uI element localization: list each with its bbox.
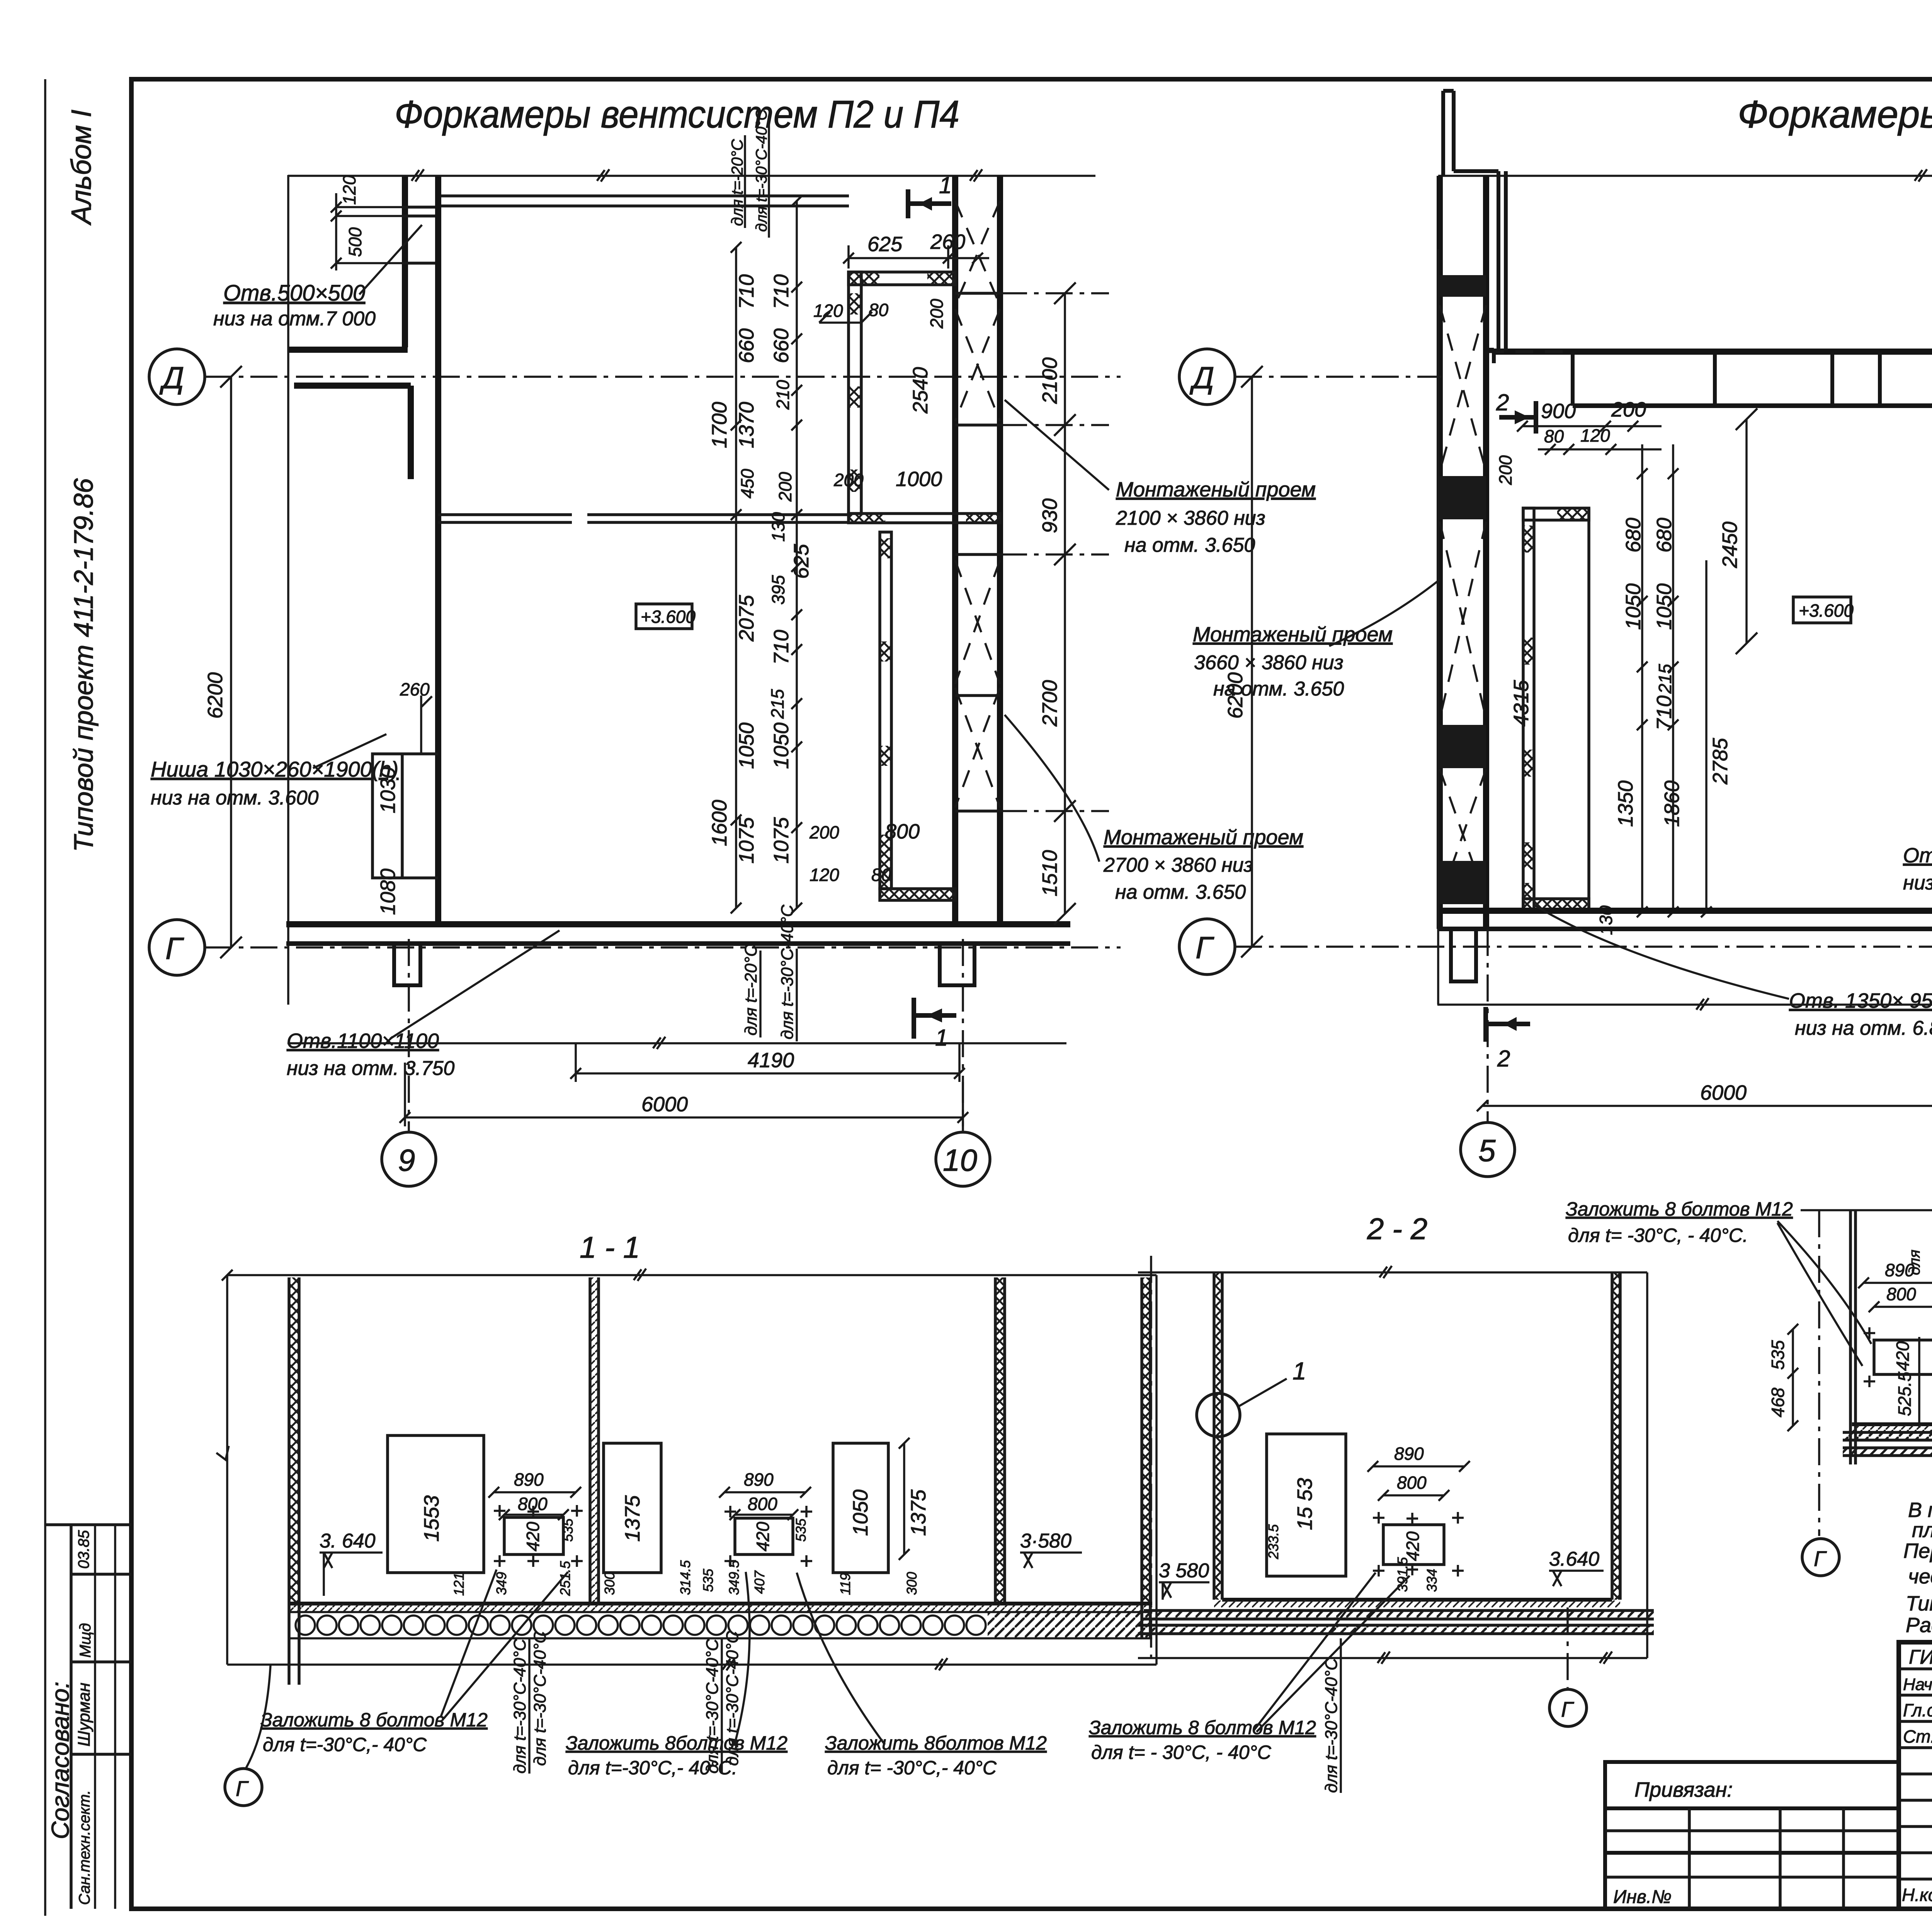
svg-text:535: 535 [793,1518,809,1542]
bottom wall double [286,921,1070,927]
dim 6000 left bay [1477,1100,1932,1111]
title block outer border [1899,1642,1932,1909]
dims 535/468 [1787,1324,1798,1431]
leader otv500 [359,225,422,294]
svg-text:Привязан:: Привязан: [1634,1778,1733,1801]
svg-text:1050: 1050 [1653,583,1676,630]
svg-text:680: 680 [1653,518,1676,553]
dim chain B line [796,201,798,908]
mid partition wall [438,515,849,522]
svg-text:890: 890 [744,1469,774,1490]
svg-text:для t=-20°C: для t=-20°C [728,139,746,226]
svg-text:1700: 1700 [708,402,731,448]
svg-text:для: для [1906,1250,1923,1275]
top extension line [227,1269,1156,1281]
right wall grid10 inner line [997,176,1003,927]
svg-text:03.85: 03.85 [75,1530,92,1569]
right dim chain 2100/930/2700/1510 [1054,282,1076,925]
svg-text:Г: Г [1196,930,1214,965]
svg-text:300: 300 [602,1572,617,1595]
dim 890 [1858,1277,1932,1288]
partition B hatched [995,1277,1005,1604]
top extension line [1801,1204,1932,1216]
svg-text:низ на отм. 3.750: низ на отм. 3.750 [287,1057,455,1080]
svg-text:В полу форкамер предусмо: В полу форкамер предусмотреть жесткие ми… [1908,1498,1932,1522]
svg-text:260: 260 [400,679,430,699]
bottom extension line [1138,1651,1647,1664]
svg-text:10: 10 [943,1143,977,1177]
left wall black piers [1440,275,1486,297]
svg-text:121: 121 [451,1573,467,1596]
floor lines [1222,1598,1612,1602]
grid line 9 [408,939,410,1131]
grid line 10 [962,939,964,1131]
svg-text:2700: 2700 [1038,680,1061,727]
G circle section 1-1 [225,1769,262,1806]
svg-text:1050: 1050 [849,1490,872,1536]
grid circle 10 [936,1132,990,1186]
svg-text:1510: 1510 [1038,850,1061,896]
svg-text:215: 215 [767,689,787,719]
dim 800 [1378,1490,1449,1501]
elevation box +3.600 [636,604,692,629]
svg-text:на отм. 3.650: на отм. 3.650 [1115,881,1246,903]
left dashdot [1818,1210,1820,1536]
equipment 1553 [1267,1434,1346,1576]
bottom extension line [287,1037,1066,1049]
right extension vertical [1155,1275,1158,1665]
svg-text:1000: 1000 [896,468,942,491]
svg-text:5: 5 [1478,1133,1496,1168]
svg-text:1080: 1080 [376,869,400,915]
svg-text:710: 710 [735,274,758,309]
svg-text:для t=-30°C-40°C: для t=-30°C-40°C [1322,1658,1341,1793]
svg-text:Заложить 8 болтов М12: Заложить 8 болтов М12 [1089,1717,1316,1738]
svg-text:Отв. 1350× 950 (h): Отв. 1350× 950 (h) [1789,989,1932,1012]
equipment 1050 [833,1443,888,1573]
right extension vertical [1646,1272,1648,1658]
svg-text:1375: 1375 [621,1495,644,1542]
svg-text:+3.600: +3.600 [641,607,696,627]
svg-text:1600: 1600 [708,800,731,846]
right wall grid10 outer line [952,176,958,927]
svg-text:Монтажeный проем: Монтажeный проем [1193,623,1393,646]
left wall cap [289,347,408,353]
svg-text:210: 210 [773,380,793,410]
svg-text:ГИП: ГИП [1909,1646,1932,1668]
svg-text:1 - 1: 1 - 1 [580,1230,640,1264]
slab right diagonal part [988,1612,1152,1638]
svg-text:для t=-20°C: для t=-20°C [742,944,760,1036]
svg-text:9: 9 [398,1143,415,1177]
right wall [1142,1277,1150,1604]
svg-text:120: 120 [1580,425,1610,446]
svg-text:Отв.500×500: Отв.500×500 [223,281,365,306]
dim 4190 [570,1043,965,1082]
svg-text:200: 200 [1495,455,1515,485]
svg-text:1050: 1050 [735,723,758,769]
svg-text:391.5: 391.5 [1395,1557,1410,1592]
dim 6200 right plan [1241,366,1263,957]
svg-text:Шурман: Шурман [75,1683,94,1747]
svg-text:420: 420 [1893,1341,1913,1371]
wall step at left [1485,350,1494,363]
svg-text:Ст.инж: Ст.инж [1903,1726,1932,1747]
top extension line [1138,1266,1647,1278]
leaders [1254,1573,1410,1732]
bottom extension line [227,1658,1156,1670]
svg-text:Отв.1100×1100: Отв.1100×1100 [287,1029,439,1053]
svg-text:200: 200 [833,470,864,490]
svg-text:120: 120 [810,865,839,885]
svg-text:для t=-30°C,- 40°C: для t=-30°C,- 40°C [263,1734,427,1755]
left dashdot vertical [1150,1256,1152,1658]
mid partition [590,1277,599,1604]
svg-text:80: 80 [1544,426,1564,446]
dim chain A line [735,247,737,908]
left wall hatched [1214,1272,1222,1600]
leader zalozhit 3 [797,1573,885,1745]
svg-text:625: 625 [867,233,903,256]
svg-text:2540: 2540 [909,367,932,414]
dim 890 b [719,1487,811,1498]
svg-text:плиты ГОСТ 22950 -78 толщин: плиты ГОСТ 22950 -78 толщиной 40мм [1912,1519,1932,1542]
dim 525.5 [1918,1337,1920,1428]
svg-text:2075: 2075 [735,595,758,642]
left wall hatched [289,1277,299,1604]
equipment 1553 [388,1435,484,1573]
right wall hatched [1612,1272,1620,1600]
grid circle 9 [382,1132,436,1186]
svg-text:3. 640: 3. 640 [320,1530,376,1552]
svg-text:1375: 1375 [907,1489,930,1536]
grid line D right plan [1235,376,1441,378]
svg-text:200: 200 [927,299,947,329]
grid circle G right [1179,919,1235,975]
svg-text:Г: Г [165,931,184,966]
svg-text:349: 349 [493,1572,509,1595]
svg-text:1: 1 [939,172,952,198]
dim 6000 [400,1063,968,1126]
svg-text:Гл.спец.: Гл.спец. [1903,1700,1932,1720]
section flag 2 top [1499,401,1536,434]
dim 6200 left [220,366,242,958]
svg-text:407: 407 [752,1570,767,1594]
bottom wall right plan [1438,908,1932,914]
left wall band outer [1437,176,1443,929]
montage opening X upper [955,201,1000,421]
main left wall vertical [435,177,441,927]
svg-text:900: 900 [1541,400,1576,423]
svg-text:710: 710 [1653,696,1676,730]
leader otv1350 mid [1536,906,1789,999]
svg-text:Д: Д [159,361,184,395]
svg-text:для t= -30°C,- 40°C: для t= -30°C,- 40°C [827,1757,997,1779]
svg-text:Отв. 900× 900: Отв. 900× 900 [1903,844,1932,867]
left page edge thin line [44,79,46,1916]
left forkamera bottom cap [1523,899,1589,911]
svg-text:3·580: 3·580 [1020,1530,1071,1552]
svg-text:Заложить 8болтов М12: Заложить 8болтов М12 [825,1732,1047,1754]
svg-text:710: 710 [770,274,793,309]
left wall double [1850,1210,1855,1464]
leader otv1100 [390,930,560,1039]
dim 890 [1367,1461,1470,1472]
svg-text:314.5: 314.5 [677,1560,693,1595]
svg-text:2: 2 [1496,389,1509,415]
svg-text:Типовой проект 411-2-179.86: Типовой проект 411-2-179.86 [68,478,99,852]
svg-text:215: 215 [1655,664,1675,694]
svg-text:200: 200 [775,472,795,502]
svg-text:низ на отм.7 000: низ на отм.7 000 [213,308,376,330]
lower forkamera left bar [880,532,891,889]
svg-text:Согласовано:: Согласовано: [46,1682,74,1839]
svg-text:3660 × 3860 низ: 3660 × 3860 низ [1194,651,1344,674]
svg-text:660: 660 [735,328,758,363]
svg-text:349.5: 349.5 [726,1560,742,1595]
svg-text:800: 800 [518,1494,548,1514]
svg-text:2450: 2450 [1718,522,1742,568]
svg-text:Г: Г [1814,1546,1827,1571]
svg-text:4190: 4190 [748,1049,794,1072]
column stub left [1451,929,1476,981]
svg-text:200: 200 [809,822,839,842]
svg-text:4315: 4315 [1510,680,1533,726]
svg-text:1050: 1050 [1622,583,1645,630]
svg-text:625: 625 [790,544,813,579]
svg-text:1350: 1350 [1614,781,1637,827]
svg-text:468: 468 [1768,1388,1788,1417]
svg-text:130: 130 [768,512,788,542]
G circle with dash [1566,1607,1569,1688]
right chains of left forkamera [1642,444,1706,912]
svg-text:Альбом I: Альбом I [66,110,97,226]
montage X left wall [1440,305,1486,900]
svg-text:низ на отм. 6.850: низ на отм. 6.850 [1795,1017,1932,1039]
svg-text:1: 1 [935,1025,948,1051]
top extension line [1438,169,1932,182]
left extension vertical [1437,249,1439,1005]
svg-text:680: 680 [1622,518,1645,553]
svg-text:525.5: 525.5 [1895,1371,1915,1416]
svg-text:1075: 1075 [770,817,793,864]
svg-text:Расход металла на выпуски ф 6: Расход металла на выпуски ф 6АI - 104,6 … [1906,1614,1932,1637]
grid circle G [149,920,205,975]
svg-text:Монтажeный проем: Монтажeный проем [1104,826,1303,849]
upper forkamera top bar [849,272,955,285]
leader montage right [1329,580,1440,646]
top wall outer line [1494,349,1932,355]
svg-text:1075: 1075 [735,817,758,864]
G circle [1802,1539,1839,1576]
svg-text:251.5: 251.5 [557,1561,573,1596]
svg-text:низ на отм. 3.600: низ на отм. 3.600 [151,787,319,809]
svg-text:2 - 2: 2 - 2 [1367,1212,1427,1246]
grid line G [205,946,1121,949]
svg-text:низ на отм. 4.500: низ на отм. 4.500 [1903,872,1932,894]
svg-text:500: 500 [345,227,365,257]
montage opening X lower [955,560,1000,808]
svg-text:334: 334 [1424,1569,1440,1592]
svg-text:660: 660 [770,328,793,363]
chain ticks [731,196,802,913]
svg-text:для t=-30°C,- 40°C.: для t=-30°C,- 40°C. [568,1757,737,1779]
svg-text:420: 420 [753,1522,773,1551]
upper forkamera left bar [849,272,861,514]
svg-text:Форкамеры вентсистем П1 и П3: Форкамеры вентсистем П1 и П3 [1738,93,1932,136]
column stub grid9 [394,944,420,985]
svg-text:Типы узлов воздухозабора с: Типы узлов воздухозабора см. лист 6 и че… [1906,1592,1932,1615]
svg-text:120: 120 [813,301,843,321]
dim 800 b [730,1509,798,1520]
grid line 5 [1486,929,1489,1122]
svg-text:800: 800 [1397,1473,1427,1493]
bottom extension line right plan [1437,998,1932,1010]
svg-text:для t= -30°C, - 40°C.: для t= -30°C, - 40°C. [1568,1225,1748,1246]
svg-text:2100 × 3860 низ: 2100 × 3860 низ [1116,507,1265,529]
svg-text:80: 80 [869,300,889,320]
svg-text:2785: 2785 [1709,738,1732,785]
leaders from header [1777,1221,1871,1366]
left extension line [287,175,289,1005]
svg-text:200: 200 [1611,398,1646,421]
svg-text:80: 80 [871,865,891,885]
screed bands [1144,1611,1654,1619]
right wall band dividers [955,293,1000,811]
svg-text:450: 450 [737,469,757,498]
svg-text:233.5: 233.5 [1265,1524,1281,1560]
svg-text:Форкамеры вентсистем П2 и П4: Форкамеры вентсистем П2 и П4 [395,93,959,136]
left forkamera vertical band [1523,508,1534,911]
svg-text:120: 120 [339,175,359,205]
svg-text:для t= - 30°C, - 40°C: для t= - 30°C, - 40°C [1091,1742,1272,1763]
svg-text:930: 930 [1038,498,1061,533]
duct double line [440,194,849,197]
svg-text:535: 535 [1768,1340,1788,1370]
svg-text:395: 395 [768,575,788,605]
svg-text:на отм. 3.650: на отм. 3.650 [1124,534,1255,556]
svg-text:Нач.отд.: Нач.отд. [1903,1675,1932,1694]
floor insulation strip [290,1604,1152,1612]
svg-text:Мщд: Мщд [77,1623,94,1658]
mid thick wall at forkamera [849,514,1000,523]
svg-text:6000: 6000 [1700,1081,1747,1104]
svg-text:ческого оборудования.: ческого оборудования. [1908,1565,1932,1588]
svg-text:6000: 6000 [641,1093,688,1116]
section flag 2 bottom [1486,1007,1530,1042]
svg-text:2: 2 [1497,1046,1510,1071]
svg-text:710: 710 [770,630,793,665]
svg-text:890: 890 [514,1469,544,1490]
svg-text:2100: 2100 [1038,357,1061,404]
dim 1375 b [899,1438,910,1560]
svg-text:+3.600: +3.600 [1799,600,1854,621]
svg-text:3 580: 3 580 [1159,1560,1209,1582]
dim 625/260 above forkamera [843,245,989,269]
dim 800 [1869,1301,1932,1312]
svg-text:420: 420 [523,1522,543,1551]
svg-text:420: 420 [1403,1531,1423,1561]
svg-text:Г: Г [236,1776,249,1801]
svg-text:1553: 1553 [420,1495,443,1542]
wall joint verticals [1573,352,1880,406]
leader zalozhit 2 [734,1572,750,1746]
soglasovano table [45,1525,131,1909]
grid line G right plan [1235,946,1932,948]
elevation box right plan [1793,597,1851,623]
svg-text:6200: 6200 [204,672,227,719]
svg-text:Д: Д [1189,361,1214,395]
dim 800 a [499,1509,569,1520]
hollow core slab circles [290,1612,1152,1638]
exterior wall piece below D [294,386,411,479]
left wall upper vertical [402,177,408,347]
dim 890 a [488,1487,581,1498]
leader montage 1 [1005,400,1109,490]
svg-text:Инв.№: Инв.№ [1613,1887,1672,1907]
column stub grid10 [940,944,975,985]
svg-text:300: 300 [904,1572,920,1595]
grid circle D right [1179,349,1235,405]
svg-text:535: 535 [700,1568,716,1592]
svg-text:15 53: 15 53 [1293,1478,1316,1530]
svg-text:800: 800 [1886,1284,1916,1304]
grid line D [205,376,1121,378]
svg-text:Заложить 8болтов М12: Заложить 8болтов М12 [566,1732,787,1754]
left forkamera top cap [1523,508,1589,520]
svg-text:Заложить 8 болтов М12: Заложить 8 болтов М12 [260,1709,488,1731]
wall stub above top-left corner [1443,91,1506,352]
svg-text:для t=-30°C-40°C.: для t=-30°C-40°C. [753,105,770,232]
niche outline [372,754,438,878]
signature table rows [1899,1667,1932,1670]
svg-text:Монтажeный проем: Монтажeный проем [1116,478,1316,501]
svg-text:800: 800 [885,820,920,843]
top wall inner line [1573,403,1932,408]
svg-text:1050: 1050 [770,723,793,769]
svg-text:119: 119 [837,1573,853,1595]
top wall hidden dashes left [1486,350,1573,353]
top dim 900/200 [1517,421,1662,432]
svg-text:800: 800 [748,1494,777,1514]
svg-text:Заложить 8 болтов М12: Заложить 8 болтов М12 [1566,1198,1793,1220]
svg-text:1370: 1370 [735,402,758,448]
dim 120/500 top-left [331,193,440,270]
svg-text:890: 890 [1394,1444,1424,1464]
equipment 420 a [504,1517,563,1554]
equipment 420 [1874,1340,1932,1374]
svg-text:535: 535 [560,1518,576,1542]
svg-text:Ниша 1030×260×1900(h): Ниша 1030×260×1900(h) [151,757,398,781]
floor top line [290,1602,1152,1605]
svg-text:для t=-30°C-40°C: для t=-30°C-40°C [778,904,797,1039]
svg-text:2700 × 3860 низ: 2700 × 3860 низ [1103,854,1253,876]
equipment 1375 a [604,1443,661,1573]
svg-text:на отм. 3.650: на отм. 3.650 [1213,678,1344,700]
svg-text:для t=-30°C-40°C: для t=-30°C-40°C [531,1631,549,1766]
leaders zalozhit 1 [440,1570,568,1719]
leader montage 2 [1005,715,1099,862]
left wall band inner [1483,176,1489,929]
svg-text:Н.контр.: Н.контр. [1902,1885,1932,1905]
svg-text:Сан.техн.сект.: Сан.техн.сект. [76,1790,93,1905]
privyazan block [1605,1762,1899,1909]
left wall opening ticks [402,207,440,263]
grid circle 5 [1461,1122,1515,1177]
svg-text:1: 1 [1293,1357,1306,1385]
grid circle D [149,349,205,405]
svg-text:1860: 1860 [1660,781,1684,827]
